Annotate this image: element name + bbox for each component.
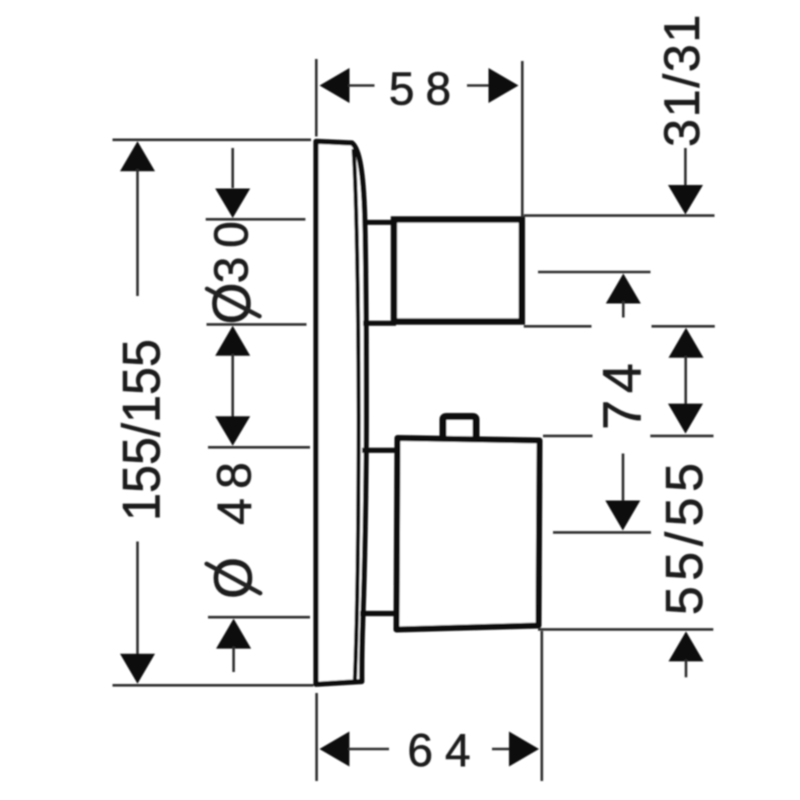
dim Ø48: down arrow xyxy=(215,416,250,446)
dim 155/155: lower shaft xyxy=(136,542,139,659)
diameter slash of Ø30 xyxy=(207,289,260,316)
svg-text:3: 3 xyxy=(206,257,259,284)
handle top reference line (right segment) xyxy=(650,435,713,438)
dim 55/55: lower tail xyxy=(685,660,688,678)
dim 55/55: upper shaft xyxy=(622,454,625,504)
dim 58: right stub line xyxy=(467,84,490,87)
svg-text:58: 58 xyxy=(389,63,462,115)
handle bottom reference line xyxy=(538,628,713,631)
dim Ø30: down arrow xyxy=(215,189,250,219)
knob top reference line (left side) xyxy=(206,218,306,221)
knob top reference line xyxy=(524,214,715,217)
dim 64: right arrow xyxy=(509,732,539,767)
volume handle rectangle xyxy=(397,438,540,630)
thermostat knob rectangle xyxy=(394,220,522,322)
svg-text:155/155: 155/155 xyxy=(111,339,170,521)
inner span down arrow xyxy=(668,404,703,434)
volume handle clip tab xyxy=(443,417,476,438)
knob axis reference line xyxy=(538,271,651,274)
dim Ø48: lower up arrow xyxy=(216,619,251,649)
dim 58: left stub line xyxy=(348,84,375,87)
svg-text:55/55: 55/55 xyxy=(656,457,714,615)
knob neck upper line xyxy=(363,220,396,225)
dim 155/155: top arrow (up) xyxy=(120,141,155,171)
svg-text:0: 0 xyxy=(206,221,259,248)
dim 155/155: bottom arrow (down) xyxy=(120,654,155,684)
svg-text:8: 8 xyxy=(208,462,261,489)
handle bottom reference line (left side) xyxy=(208,616,310,619)
dim 155/155: upper shaft xyxy=(136,169,139,296)
knob neck lower line xyxy=(363,321,396,326)
svg-text:4: 4 xyxy=(209,498,262,525)
knob bottom reference line (right segment) xyxy=(652,325,715,328)
dim 55/55: down arrow at handle axis xyxy=(605,501,640,531)
dim 58: right extension line xyxy=(521,61,524,217)
inner span up arrow xyxy=(669,328,704,358)
plate face inner edge arc xyxy=(354,149,359,680)
handle top reference line (left side) xyxy=(208,446,310,449)
diameter slash of Ø48 xyxy=(207,564,261,593)
svg-text:64: 64 xyxy=(407,724,482,776)
dim 64: right stub line xyxy=(492,748,510,751)
svg-text:31/31: 31/31 xyxy=(653,13,710,147)
knob bottom reference line (left side) xyxy=(207,323,307,326)
dim 64: left arrow xyxy=(319,732,349,767)
knob bottom reference line (left segment) xyxy=(524,325,592,328)
dim 155/155: bottom extension line xyxy=(113,684,314,687)
dim 58: left extension line xyxy=(315,59,318,137)
dim 64: right extension line xyxy=(540,631,543,781)
dim 64: left extension line xyxy=(315,693,318,781)
dim 64: left stub line xyxy=(348,748,389,751)
dim 155/155: top extension line xyxy=(113,139,312,142)
handle neck upper line xyxy=(362,448,399,453)
dim 31/31: shaft xyxy=(684,148,687,188)
inner span shaft xyxy=(684,356,687,406)
dim 58: right arrow xyxy=(489,68,519,103)
dim Ø48: lower tail xyxy=(232,647,235,673)
escutcheon plate outline xyxy=(316,141,366,684)
dim 31/31: down arrow xyxy=(668,185,703,215)
dim Ø48: up arrow below knob line xyxy=(215,326,250,356)
svg-text:74: 74 xyxy=(593,357,653,430)
handle axis reference line xyxy=(553,531,651,534)
dim 55/55: up arrow at handle bottom xyxy=(669,631,704,661)
dim Ø48: middle shaft xyxy=(231,354,234,417)
dim Ø30: upper shaft xyxy=(231,148,234,188)
dim 74: top arrow tail xyxy=(622,301,625,318)
handle top reference line (left segment) xyxy=(543,435,593,438)
dim 74: top arrow (up) xyxy=(606,274,641,304)
handle neck lower line xyxy=(360,611,399,616)
dim 58: left arrow xyxy=(320,68,350,103)
